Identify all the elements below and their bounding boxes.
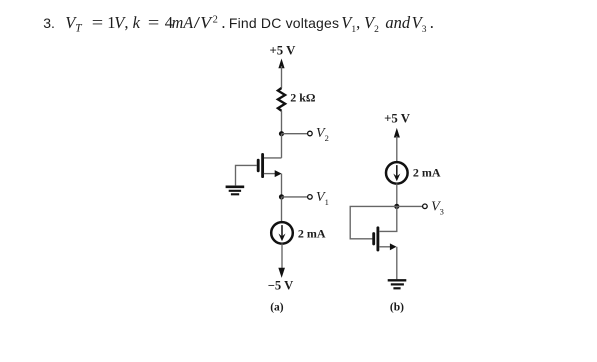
node V1 open terminal bbox=[308, 195, 313, 200]
node V3 open terminal bbox=[423, 204, 428, 209]
svg-text:.: . bbox=[430, 13, 434, 32]
svg-text:V2: V2 bbox=[316, 126, 329, 143]
wire: source to node V1 bbox=[281, 174, 283, 197]
svg-text:and: and bbox=[385, 13, 411, 32]
wire: current source to -5V arrow (a) bbox=[281, 243, 283, 269]
svg-text:2 kΩ: 2 kΩ bbox=[290, 91, 316, 105]
transistor Q2 drain lead wire bbox=[379, 206, 397, 231]
svg-text:2: 2 bbox=[213, 15, 218, 26]
wire: source to ground (b) bbox=[396, 247, 398, 279]
transistor Q1 channel bar bbox=[261, 154, 264, 176]
transistor Q1 drain lead bbox=[264, 157, 282, 159]
svg-text:3.: 3. bbox=[43, 15, 55, 31]
title: problem statement bbox=[43, 13, 434, 35]
transistor Q2 source lead with arrow bbox=[379, 243, 396, 250]
svg-text:V3: V3 bbox=[431, 199, 444, 216]
svg-text:VT: VT bbox=[65, 13, 82, 35]
svg-text:+5 V: +5 V bbox=[269, 44, 296, 58]
svg-text:2 mA: 2 mA bbox=[298, 226, 326, 240]
wire: node V2 to terminal bbox=[282, 133, 308, 135]
svg-text:=: = bbox=[148, 13, 159, 32]
svg-text:V1,: V1, bbox=[341, 13, 360, 35]
svg-text:(b): (b) bbox=[390, 301, 404, 313]
wire: current source to node V3 bbox=[396, 183, 398, 206]
transistor Q1 gate lead wire bbox=[236, 165, 258, 185]
svg-text:V1: V1 bbox=[316, 190, 329, 207]
svg-text:−5 V: −5 V bbox=[268, 279, 294, 293]
node V2 junction dot bbox=[279, 131, 284, 136]
ground at source of Q2 bbox=[388, 280, 407, 288]
wire: node V1 to terminal bbox=[282, 196, 308, 198]
node V2 open terminal bbox=[308, 131, 313, 136]
wire: node V1 to current source (a) bbox=[281, 197, 283, 223]
resistor 2k (a) bbox=[278, 88, 285, 111]
node V1 junction dot bbox=[279, 194, 284, 199]
+5V supply arrow (b) bbox=[394, 128, 400, 162]
node V3 junction dot bbox=[394, 204, 399, 209]
svg-text:V,: V, bbox=[114, 13, 128, 32]
svg-text:2 mA: 2 mA bbox=[413, 165, 441, 179]
svg-text:V3: V3 bbox=[412, 13, 427, 35]
svg-text:k: k bbox=[133, 13, 141, 32]
svg-text:mA: mA bbox=[172, 13, 194, 32]
ground at gate of Q1 bbox=[226, 187, 245, 195]
svg-text:.: . bbox=[221, 13, 225, 32]
svg-text:=: = bbox=[92, 13, 103, 32]
transistor Q2 gate bar bbox=[372, 234, 375, 244]
transistor Q2 channel bar bbox=[376, 228, 379, 250]
-5V supply arrow (a) bbox=[278, 268, 285, 278]
svg-text:+5 V: +5 V bbox=[384, 111, 411, 125]
svg-text:V: V bbox=[200, 13, 213, 32]
svg-text:V2: V2 bbox=[364, 13, 379, 35]
wire: node V2 to drain (a) bbox=[281, 134, 283, 158]
+5V supply arrow (a) bbox=[278, 59, 284, 89]
wire: gate feedback loop (b) bbox=[350, 206, 397, 238]
transistor Q1 gate bar bbox=[257, 160, 260, 171]
svg-text:(a): (a) bbox=[270, 301, 284, 313]
current source 2mA (a) bbox=[271, 222, 293, 244]
svg-text:Find DC voltages: Find DC voltages bbox=[229, 15, 339, 31]
wire: node V3 to terminal bbox=[397, 205, 423, 207]
current source 2mA (b) bbox=[386, 162, 408, 184]
wire: resistor to node V2 bbox=[281, 111, 283, 134]
transistor Q1 source lead with arrow bbox=[264, 170, 282, 177]
